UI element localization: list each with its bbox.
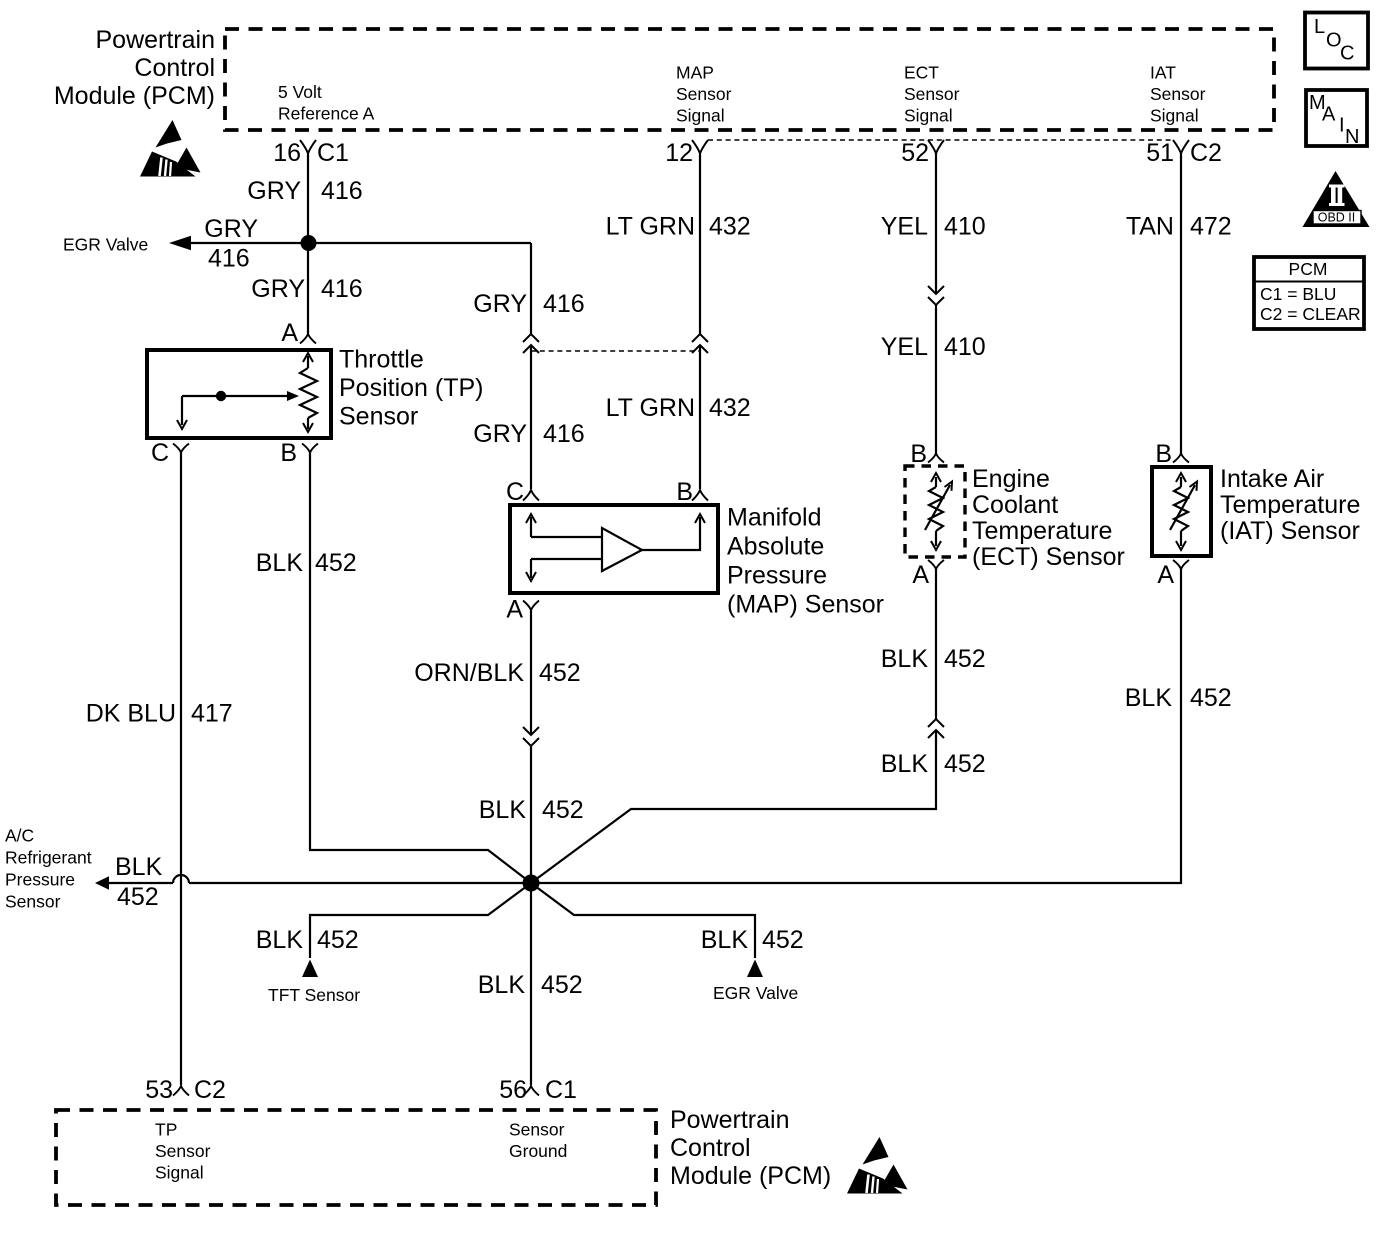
svg-text:(ECT) Sensor: (ECT) Sensor bbox=[972, 543, 1125, 571]
wire GRY 416 branch to EGR Valve bbox=[63, 215, 308, 273]
svg-text:Pressure: Pressure bbox=[727, 562, 827, 590]
pin C of TP sensor bbox=[151, 439, 189, 467]
svg-text:A: A bbox=[1322, 104, 1336, 126]
svg-text:Reference A: Reference A bbox=[278, 104, 375, 124]
svg-text:PCM: PCM bbox=[1289, 259, 1328, 279]
svg-text:Temperature: Temperature bbox=[972, 517, 1112, 545]
svg-text:Module (PCM): Module (PCM) bbox=[670, 1162, 831, 1190]
svg-text:Sensor: Sensor bbox=[5, 892, 61, 912]
svg-text:GRY: GRY bbox=[204, 215, 258, 243]
ECT sensor box (dashed) bbox=[905, 465, 1125, 571]
svg-text:A/C: A/C bbox=[5, 826, 34, 846]
svg-text:452: 452 bbox=[944, 645, 986, 673]
pin A of IAT sensor bbox=[1157, 560, 1189, 589]
net label MAP Sensor Signal bbox=[676, 63, 732, 126]
svg-text:MAP: MAP bbox=[676, 63, 714, 83]
pin 53 connector C2 (PCM bottom) bbox=[145, 1076, 226, 1104]
svg-text:OBD II: OBD II bbox=[1318, 211, 1356, 225]
svg-text:452: 452 bbox=[117, 883, 159, 911]
wire BLK 452 to EGR valve (bottom) bbox=[531, 883, 804, 1003]
svg-text:416: 416 bbox=[208, 245, 250, 273]
svg-text:452: 452 bbox=[762, 926, 804, 954]
svg-text:Signal: Signal bbox=[1150, 106, 1199, 126]
svg-text:472: 472 bbox=[1190, 213, 1232, 241]
TP sensor box bbox=[147, 346, 483, 439]
svg-text:N: N bbox=[1345, 126, 1359, 148]
svg-text:Ground: Ground bbox=[509, 1141, 567, 1161]
MAP internal output arrow bbox=[642, 514, 705, 550]
svg-text:GRY: GRY bbox=[251, 275, 305, 303]
net label TP Sensor Signal bbox=[155, 1120, 211, 1183]
svg-text:C1: C1 bbox=[317, 139, 349, 167]
svg-text:EGR Valve: EGR Valve bbox=[713, 983, 798, 1003]
PCM connector legend box bbox=[1254, 257, 1364, 329]
pin 56 connector C1 (PCM bottom) bbox=[499, 1076, 577, 1104]
svg-text:410: 410 bbox=[944, 333, 986, 361]
PCM top module box (dashed) bbox=[225, 29, 1274, 130]
svg-text:TP: TP bbox=[155, 1120, 177, 1140]
svg-text:53: 53 bbox=[145, 1076, 173, 1104]
wire BLK 452 ground splice to pin 56 bbox=[478, 883, 583, 1085]
svg-text:452: 452 bbox=[315, 549, 357, 577]
svg-text:51: 51 bbox=[1146, 139, 1174, 167]
svg-text:Signal: Signal bbox=[155, 1163, 204, 1183]
wire ORN/BLK 452 from MAP pin A bbox=[414, 610, 580, 735]
potentiometer wiper arm bbox=[177, 391, 299, 429]
wire LT GRN 432 from pin 12 bbox=[606, 154, 751, 335]
node ground splice (dot) bbox=[523, 875, 540, 892]
svg-text:BLK: BLK bbox=[478, 971, 526, 999]
inline connector on ORN/BLK 452 (chevrons down) bbox=[523, 727, 539, 746]
svg-text:C: C bbox=[151, 439, 169, 467]
inline connector on LT GRN 432 (chevrons) bbox=[692, 334, 708, 353]
svg-text:C2: C2 bbox=[194, 1076, 226, 1104]
svg-text:Powertrain: Powertrain bbox=[96, 26, 216, 54]
svg-text:A: A bbox=[912, 561, 929, 589]
svg-text:BLK: BLK bbox=[881, 645, 929, 673]
svg-text:BLK: BLK bbox=[115, 853, 163, 881]
thermistor inside IAT sensor bbox=[1170, 473, 1197, 550]
svg-text:Sensor: Sensor bbox=[155, 1141, 211, 1161]
inline connector on YEL 410 (chevrons down) bbox=[928, 286, 944, 305]
svg-text:B: B bbox=[676, 478, 693, 506]
svg-text:C: C bbox=[1340, 43, 1354, 65]
wire YEL 410 to ECT pin B bbox=[881, 305, 986, 455]
svg-text:Powertrain: Powertrain bbox=[670, 1106, 790, 1134]
pin A of TP sensor bbox=[281, 319, 316, 347]
svg-text:GRY: GRY bbox=[247, 177, 301, 205]
svg-text:452: 452 bbox=[1190, 684, 1232, 712]
svg-text:YEL: YEL bbox=[881, 213, 928, 241]
pin B of MAP sensor bbox=[676, 478, 708, 506]
svg-text:IAT: IAT bbox=[1150, 63, 1176, 83]
svg-text:BLK: BLK bbox=[881, 750, 929, 778]
svg-text:410: 410 bbox=[944, 213, 986, 241]
svg-text:416: 416 bbox=[321, 275, 363, 303]
wire GRY 416 down to TP sensor pin A bbox=[251, 243, 362, 334]
svg-text:Intake Air: Intake Air bbox=[1220, 465, 1324, 493]
svg-text:452: 452 bbox=[539, 659, 581, 687]
svg-text:BLK: BLK bbox=[1125, 684, 1173, 712]
svg-text:Throttle: Throttle bbox=[339, 346, 424, 374]
svg-text:452: 452 bbox=[542, 796, 584, 824]
pin A of MAP sensor bbox=[506, 596, 539, 624]
wire BLK 452 to TFT sensor bbox=[256, 883, 531, 1005]
svg-text:Absolute: Absolute bbox=[727, 533, 824, 561]
wire DK BLU 417 from TP pin C to pin 53 bbox=[86, 452, 233, 1085]
svg-text:I: I bbox=[1339, 115, 1345, 137]
svg-text:Signal: Signal bbox=[904, 106, 953, 126]
svg-text:417: 417 bbox=[191, 700, 233, 728]
svg-text:16: 16 bbox=[273, 139, 301, 167]
inline connector on GRY 416 (chevrons) bbox=[523, 334, 539, 353]
svg-text:TAN: TAN bbox=[1126, 213, 1174, 241]
pin 16 connector C1 (PCM) bbox=[273, 139, 349, 167]
svg-text:B: B bbox=[1155, 440, 1172, 468]
pin 12 (PCM) bbox=[665, 139, 708, 167]
wire TAN 472 from pin 51 to IAT pin B bbox=[1126, 154, 1232, 456]
svg-text:Coolant: Coolant bbox=[972, 491, 1058, 519]
wire GRY 416 vertical to MAP connector bbox=[473, 243, 584, 334]
svg-text:A: A bbox=[1157, 561, 1174, 589]
dashed harness line pins 12-51 bbox=[708, 139, 1173, 141]
svg-text:ORN/BLK: ORN/BLK bbox=[414, 659, 524, 687]
svg-text:A: A bbox=[506, 596, 523, 624]
svg-text:56: 56 bbox=[499, 1076, 527, 1104]
svg-text:Position (TP): Position (TP) bbox=[339, 374, 483, 402]
svg-text:Sensor: Sensor bbox=[339, 403, 418, 431]
pin 52 (PCM) bbox=[901, 139, 944, 167]
svg-text:C1 = BLU: C1 = BLU bbox=[1260, 284, 1336, 304]
MAIN reference box bbox=[1306, 90, 1367, 148]
wire BLK 452 from TP pin B to ground splice bbox=[256, 452, 531, 883]
pin B of ECT sensor bbox=[910, 440, 944, 468]
svg-text:416: 416 bbox=[321, 177, 363, 205]
svg-text:416: 416 bbox=[543, 290, 585, 318]
svg-text:BLK: BLK bbox=[256, 926, 304, 954]
pin B of IAT sensor bbox=[1155, 440, 1189, 468]
pin A of ECT sensor bbox=[912, 560, 944, 589]
svg-text:Engine: Engine bbox=[972, 465, 1050, 493]
wire BLK 452 from ECT pin A bbox=[881, 568, 986, 719]
svg-text:DK BLU: DK BLU bbox=[86, 700, 176, 728]
svg-text:C2: C2 bbox=[1190, 139, 1222, 167]
IAT sensor box bbox=[1152, 465, 1360, 556]
inline connector dashed tie line bbox=[531, 350, 700, 352]
svg-text:(MAP) Sensor: (MAP) Sensor bbox=[727, 591, 884, 619]
svg-text:GRY: GRY bbox=[473, 290, 527, 318]
wire BLK 452 to A/C refrigerant pressure sensor (with hop) bbox=[5, 826, 531, 912]
svg-text:432: 432 bbox=[709, 394, 751, 422]
svg-text:432: 432 bbox=[709, 213, 751, 241]
wire GRY 416 from pin 16 to EGR junction bbox=[247, 154, 362, 244]
svg-text:BLK: BLK bbox=[479, 796, 527, 824]
svg-text:Sensor: Sensor bbox=[509, 1120, 565, 1140]
svg-text:5 Volt: 5 Volt bbox=[278, 82, 322, 102]
net label 5 Volt Reference A bbox=[278, 82, 375, 124]
svg-text:GRY: GRY bbox=[473, 420, 527, 448]
wire GRY 416 to MAP pin C bbox=[473, 345, 584, 489]
svg-text:LT GRN: LT GRN bbox=[606, 394, 695, 422]
svg-text:Control: Control bbox=[670, 1134, 751, 1162]
svg-text:B: B bbox=[280, 439, 297, 467]
svg-text:ECT: ECT bbox=[904, 63, 939, 83]
net label ECT Sensor Signal bbox=[904, 63, 960, 126]
svg-text:452: 452 bbox=[541, 971, 583, 999]
net label IAT Sensor Signal bbox=[1150, 63, 1206, 126]
svg-text:BLK: BLK bbox=[256, 549, 304, 577]
svg-text:Control: Control bbox=[134, 54, 215, 82]
svg-text:TFT Sensor: TFT Sensor bbox=[268, 985, 360, 1005]
potentiometer inside TP sensor bbox=[300, 353, 317, 432]
svg-text:Module (PCM): Module (PCM) bbox=[54, 82, 215, 110]
inline connector on ECT BLK 452 (chevrons up) bbox=[928, 719, 944, 738]
svg-text:BLK: BLK bbox=[701, 926, 749, 954]
net label Sensor Ground bbox=[509, 1120, 567, 1162]
svg-text:452: 452 bbox=[944, 750, 986, 778]
svg-text:Sensor: Sensor bbox=[676, 84, 732, 104]
MAP internal input arrows bbox=[526, 514, 602, 581]
wire BLK 452 from IAT pin A to ground splice bbox=[531, 568, 1232, 883]
wire LT GRN 432 to MAP pin B bbox=[606, 345, 751, 489]
svg-text:C: C bbox=[506, 478, 524, 506]
ESD static-sensitive symbol (top) bbox=[140, 120, 201, 177]
svg-text:Pressure: Pressure bbox=[5, 870, 75, 890]
svg-text:Signal: Signal bbox=[676, 106, 725, 126]
svg-text:Refrigerant: Refrigerant bbox=[5, 848, 92, 868]
PCM bottom module box (dashed) bbox=[56, 1110, 656, 1205]
svg-text:Temperature: Temperature bbox=[1220, 491, 1360, 519]
svg-text:B: B bbox=[910, 440, 927, 468]
MAP internal amplifier bbox=[602, 528, 642, 571]
svg-text:L: L bbox=[1314, 16, 1325, 38]
label Powertrain Control Module (PCM) top-left bbox=[54, 26, 215, 110]
wire BLK 452 ECT to ground splice bbox=[531, 730, 986, 883]
OBD II symbol bbox=[1303, 171, 1370, 227]
svg-text:Manifold: Manifold bbox=[727, 504, 822, 532]
svg-text:A: A bbox=[281, 319, 298, 347]
MAP sensor box bbox=[510, 504, 884, 619]
svg-text:Sensor: Sensor bbox=[1150, 84, 1206, 104]
pin 51 connector C2 (PCM) bbox=[1146, 139, 1222, 167]
node EGR splice (dot) bbox=[301, 235, 317, 251]
svg-text:EGR Valve: EGR Valve bbox=[63, 235, 148, 255]
thermistor inside ECT sensor bbox=[925, 473, 952, 550]
svg-text:YEL: YEL bbox=[881, 333, 928, 361]
ESD static-sensitive symbol (bottom) bbox=[847, 1137, 908, 1194]
wire YEL 410 from pin 52 bbox=[881, 154, 986, 295]
svg-text:C1: C1 bbox=[545, 1076, 577, 1104]
wire GRY 416 splice to MAP branch (horizontal) bbox=[308, 242, 531, 244]
svg-text:452: 452 bbox=[317, 926, 359, 954]
svg-text:12: 12 bbox=[665, 139, 693, 167]
svg-text:LT GRN: LT GRN bbox=[606, 213, 695, 241]
label Powertrain Control Module (PCM) bottom bbox=[670, 1106, 831, 1190]
svg-text:(IAT) Sensor: (IAT) Sensor bbox=[1220, 517, 1360, 545]
svg-text:52: 52 bbox=[901, 139, 929, 167]
pin B of TP sensor bbox=[280, 439, 318, 467]
svg-text:C2 = CLEAR: C2 = CLEAR bbox=[1260, 304, 1361, 324]
svg-text:Sensor: Sensor bbox=[904, 84, 960, 104]
pin C of MAP sensor bbox=[506, 478, 539, 506]
svg-text:416: 416 bbox=[543, 420, 585, 448]
LOC reference box bbox=[1305, 13, 1368, 69]
wire BLK 452 MAP to ground splice bbox=[479, 746, 584, 883]
